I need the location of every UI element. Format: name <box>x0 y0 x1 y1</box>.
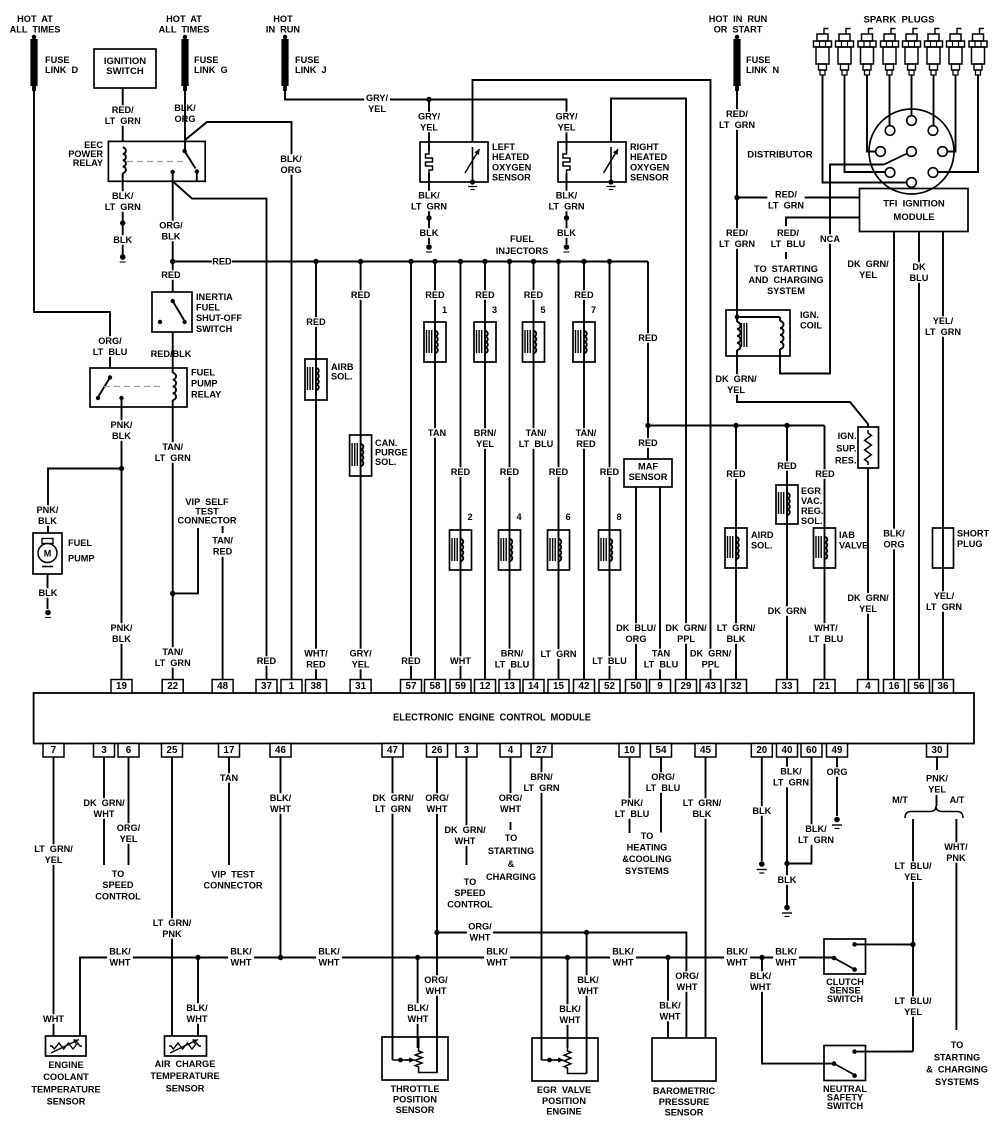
barometric pressure sensor box <box>652 1038 716 1081</box>
svg-text:30: 30 <box>932 745 943 756</box>
svg-text:LT GRN: LT GRN <box>105 202 141 212</box>
svg-text:BLK: BLK <box>752 806 771 816</box>
svg-text:45: 45 <box>700 745 711 756</box>
svg-text:RED: RED <box>726 469 746 479</box>
svg-text:FUEL: FUEL <box>510 234 534 244</box>
wire IAB valve column to ECM pin 21 <box>824 426 826 680</box>
svg-text:SENSOR: SENSOR <box>629 472 668 482</box>
fusible link J <box>283 35 288 40</box>
wire TAN/LT GRN relay coil to ECM pin 22 <box>172 407 174 680</box>
svg-text:WHT: WHT <box>470 933 491 943</box>
spark plug wire 1 to distributor cap <box>823 75 907 183</box>
bus junction dots <box>313 259 318 264</box>
svg-text:22: 22 <box>167 681 178 692</box>
svg-text:SENSOR: SENSOR <box>47 1097 86 1107</box>
svg-text:57: 57 <box>406 681 417 692</box>
svg-text:LT GRN: LT GRN <box>768 201 804 211</box>
svg-text:FUEL: FUEL <box>196 303 220 313</box>
svg-text:BLK: BLK <box>162 232 181 242</box>
ECM pin 22 (top) <box>162 680 183 694</box>
svg-text:BLK: BLK <box>693 809 712 819</box>
svg-text:47: 47 <box>387 745 398 756</box>
svg-text:PNK/: PNK/ <box>37 505 59 515</box>
wire clutch switch to M/T line <box>855 943 913 945</box>
svg-text:6: 6 <box>566 512 571 522</box>
wire ECM pin 45 to barometric sensor <box>705 757 707 1038</box>
spark plug 2 <box>846 29 851 35</box>
svg-text:ORG/: ORG/ <box>499 793 523 803</box>
ECM pin 14 (top) <box>523 680 544 694</box>
svg-text:IGN.: IGN. <box>800 310 819 320</box>
wire branch BLK/ORG to ECM pin 1 <box>185 122 292 680</box>
wire DK GRN/YEL resistor to ECM pin 4 <box>867 468 869 680</box>
svg-text:4: 4 <box>517 512 523 522</box>
svg-text:WHT: WHT <box>426 986 447 996</box>
ECM pin 47 (bottom) <box>382 744 403 758</box>
spark plug wire 6 to distributor cap <box>933 75 935 126</box>
wire label TAN/RED <box>210 536 236 557</box>
wire fuse link D to fuel pump relay (ORG/LT BLU) <box>34 91 110 368</box>
svg-text:STARTING: STARTING <box>488 846 534 856</box>
svg-text:BRN/: BRN/ <box>501 649 524 659</box>
wire RED/LT BLU TFI to starting system <box>786 218 860 227</box>
inertia fuel shut-off switch box <box>152 292 192 332</box>
svg-text:DK GRN/: DK GRN/ <box>444 825 486 835</box>
wire label BLK/ORG <box>172 103 198 124</box>
svg-text:LT BLU: LT BLU <box>93 347 128 357</box>
ECM pin 43 (top) <box>700 680 721 694</box>
svg-text:PNK/: PNK/ <box>111 623 133 633</box>
wire TFI to ECM pin 16 <box>893 232 895 680</box>
wire rotor to ignition coil secondary (NCA) <box>780 165 884 374</box>
svg-text:WHT: WHT <box>455 836 476 846</box>
svg-text:TO: TO <box>505 833 518 843</box>
svg-text:LT GRN: LT GRN <box>926 602 962 612</box>
TPS wiper <box>393 1059 413 1061</box>
wire BLK/WHT to TPS <box>417 958 419 1049</box>
IAB valve <box>814 528 836 568</box>
svg-text:ORG/: ORG/ <box>159 221 183 231</box>
canister purge solenoid <box>350 435 372 476</box>
svg-text:BLK/: BLK/ <box>318 947 340 957</box>
wire VPWR diagonal to ECM pin 37 <box>173 181 267 679</box>
ECM pin 21 (top) <box>814 680 835 694</box>
svg-text:ORG/: ORG/ <box>675 971 699 981</box>
stub to brace <box>936 795 938 806</box>
fusible link D <box>32 35 37 40</box>
wire BLK/WHT bus to neutral safety switch <box>762 958 834 1064</box>
ECM pin 15 (top) <box>548 680 569 694</box>
svg-text:49: 49 <box>832 745 843 756</box>
spark plug 8 <box>980 29 985 35</box>
wire ECM pin 26 ORG/WHT reference <box>436 757 438 1073</box>
svg-text:LT GRN: LT GRN <box>540 649 576 659</box>
svg-text:7: 7 <box>51 745 57 756</box>
wire ECM pin 30 PNK/YEL <box>936 757 938 770</box>
wire fuel pump ground BLK <box>47 574 49 609</box>
bus junction dots <box>195 955 200 960</box>
fusible link N <box>735 35 740 40</box>
svg-text:PNK: PNK <box>162 929 182 939</box>
ECM pin 26 (bottom) <box>427 744 448 758</box>
svg-text:PNK/: PNK/ <box>111 420 133 430</box>
svg-text:DK GRN/: DK GRN/ <box>665 623 707 633</box>
ignition suppression resistor <box>858 427 879 468</box>
svg-text:RED: RED <box>257 656 277 666</box>
svg-text:PUMP: PUMP <box>68 554 95 564</box>
svg-text:BAROMETRIC: BAROMETRIC <box>653 1086 716 1096</box>
svg-text:LINK G: LINK G <box>194 65 228 75</box>
wire label ORG/WHT (barometric) <box>674 971 700 992</box>
svg-text:36: 36 <box>938 681 949 692</box>
clutch sense switch box <box>824 939 866 974</box>
svg-text:WHT: WHT <box>500 804 521 814</box>
svg-text:BLK/: BLK/ <box>486 947 508 957</box>
svg-text:SWITCH: SWITCH <box>827 994 864 1004</box>
svg-text:SENSOR: SENSOR <box>166 1083 205 1093</box>
svg-text:14: 14 <box>528 681 539 692</box>
ECM pin 59 (top) <box>450 680 471 694</box>
svg-text:17: 17 <box>224 745 235 756</box>
svg-text:BLK/: BLK/ <box>559 1004 581 1014</box>
ECM pin 48 (top) <box>212 680 233 694</box>
svg-text:9: 9 <box>657 681 663 692</box>
wire inertia to fuel pump relay coil <box>172 332 174 373</box>
fuel injector 5 <box>523 322 545 362</box>
svg-text:GRY/: GRY/ <box>555 112 578 122</box>
svg-text:DK GRN/: DK GRN/ <box>847 593 889 603</box>
bus label BLK/WHT <box>724 947 750 968</box>
svg-text:SOL.: SOL. <box>801 516 822 526</box>
wire AIRD solenoid column to ECM pin 32 <box>735 426 737 680</box>
svg-text:DK: DK <box>912 262 926 272</box>
wire label RED/BLK <box>150 349 193 359</box>
wire label YEL/LT GRN (pin 36) <box>925 591 962 612</box>
fuel injector 6 <box>548 530 570 570</box>
svg-text:BLK: BLK <box>778 875 797 885</box>
junction RED/LT GRN to TFI <box>734 195 739 200</box>
svg-text:A/T: A/T <box>950 795 965 805</box>
svg-text:ELECTRONIC ENGINE CONTROL M: ELECTRONIC ENGINE CONTROL MODULE <box>393 713 591 724</box>
svg-text:WHT: WHT <box>110 958 131 968</box>
svg-text:LEFT: LEFT <box>492 142 515 152</box>
wire label DK GRN (pin 33) <box>768 606 805 616</box>
ECM pin 29 (top) <box>676 680 697 694</box>
svg-text:PNK/: PNK/ <box>621 798 643 808</box>
svg-text:IGN.: IGN. <box>838 431 857 441</box>
svg-text:LINK D: LINK D <box>45 65 78 75</box>
injector 3 column to ECM pin 12 <box>484 262 486 680</box>
svg-text:BLK/: BLK/ <box>280 154 302 164</box>
svg-text:SYSTEM: SYSTEM <box>767 286 805 296</box>
svg-text:SYSTEMS: SYSTEMS <box>935 1077 979 1087</box>
wire ECM pin 3 to speed control (right) <box>466 757 468 865</box>
ECM pin 7 (bottom) <box>43 744 64 758</box>
spark plug 6 <box>935 29 940 35</box>
svg-text:SOL.: SOL. <box>331 372 352 382</box>
wire reference drop to EGR sensor <box>586 933 588 1074</box>
EEC relay common contact <box>171 170 175 174</box>
svg-text:SPEED: SPEED <box>102 880 134 890</box>
svg-text:HOT AT: HOT AT <box>166 14 202 24</box>
svg-text:BLK/: BLK/ <box>270 793 292 803</box>
svg-text:POSITION: POSITION <box>542 1096 586 1106</box>
svg-text:LT GRN: LT GRN <box>719 239 755 249</box>
svg-text:RED/: RED/ <box>726 228 748 238</box>
svg-text:WHT: WHT <box>427 804 448 814</box>
wire label LT GRN (pin 15) <box>540 649 577 659</box>
svg-text:LT BLU: LT BLU <box>771 239 806 249</box>
wire label WHT/RED (pin 38) <box>303 649 329 670</box>
wire label TAN <box>427 428 447 438</box>
svg-text:WHT/: WHT/ <box>304 649 328 659</box>
svg-text:5: 5 <box>541 305 546 315</box>
svg-text:LT GRN/: LT GRN/ <box>153 918 192 928</box>
left O2 sensing element <box>472 147 474 182</box>
svg-text:3: 3 <box>464 745 470 756</box>
junction EGR VAC feed <box>784 423 789 428</box>
svg-text:M: M <box>44 549 52 559</box>
svg-text:LINK N: LINK N <box>746 65 779 75</box>
svg-text:1: 1 <box>289 681 295 692</box>
svg-text:PPL: PPL <box>702 660 720 670</box>
neutral safety switch box <box>824 1046 866 1081</box>
wire label BLK/ORG (pin 1 branch) <box>278 154 304 175</box>
wire ECM pin 46 to ground bus BLK/WHT <box>280 757 282 958</box>
svg-text:TO: TO <box>951 1040 964 1050</box>
svg-text:SUP.: SUP. <box>836 443 856 453</box>
svg-text:BLK/: BLK/ <box>780 767 802 777</box>
wire label WHT/LT BLU (pin 21) <box>807 623 844 644</box>
svg-text:OR START: OR START <box>714 25 763 35</box>
svg-text:CONNECTOR: CONNECTOR <box>203 881 262 891</box>
svg-text:6: 6 <box>126 745 132 756</box>
svg-text:RED: RED <box>306 317 326 327</box>
svg-text:DK GRN/: DK GRN/ <box>690 649 732 659</box>
svg-text:NCA: NCA <box>820 234 840 244</box>
svg-text:BLK: BLK <box>420 228 439 238</box>
wire TFI to ECM pin 36 <box>942 232 944 680</box>
ignition coil primary winding <box>735 315 740 320</box>
wire label DK GRN/PPL (pin 43) <box>689 649 732 670</box>
svg-text:29: 29 <box>681 681 692 692</box>
svg-text:THROTTLE: THROTTLE <box>391 1084 440 1094</box>
svg-text:WHT: WHT <box>43 1014 64 1024</box>
wire label GRY/YEL (left) <box>416 112 442 133</box>
EEC relay dashed link <box>127 161 183 163</box>
svg-text:LT BLU: LT BLU <box>615 809 650 819</box>
svg-text:DK GRN/: DK GRN/ <box>847 259 889 269</box>
svg-text:REG.: REG. <box>801 506 823 516</box>
svg-text:TAN/: TAN/ <box>212 536 233 546</box>
VIP connector stub dash <box>222 526 224 533</box>
svg-text:SOL.: SOL. <box>375 457 396 467</box>
svg-text:4: 4 <box>865 681 871 692</box>
svg-text:2: 2 <box>468 512 473 522</box>
svg-text:SENSOR: SENSOR <box>630 173 669 183</box>
junction ORG/BLK - injector feed bus <box>170 259 175 264</box>
svg-text:INERTIA: INERTIA <box>196 292 233 302</box>
svg-text:EGR VALVE: EGR VALVE <box>537 1085 591 1095</box>
ECM pin 56 (top) <box>909 680 930 694</box>
svg-text:CONTROL: CONTROL <box>447 899 493 909</box>
svg-text:4: 4 <box>508 745 514 756</box>
svg-text:33: 33 <box>782 681 793 692</box>
fuel pump relay coil <box>173 373 176 400</box>
svg-text:& CHARGING: & CHARGING <box>926 1065 988 1075</box>
ECM pin 25 (bottom) <box>162 744 183 758</box>
svg-text:ALL TIMES: ALL TIMES <box>159 25 210 35</box>
svg-text:TAN/: TAN/ <box>162 647 183 657</box>
wire RED/LT GRN fuse N to ignition coil <box>736 91 738 317</box>
svg-text:AIRB: AIRB <box>331 362 354 372</box>
svg-text:WHT: WHT <box>776 958 797 968</box>
wire ECM pin 17 to VIP test connector <box>228 757 230 865</box>
svg-text:RED: RED <box>777 461 797 471</box>
svg-text:RED: RED <box>451 467 471 477</box>
junction PNK/BLK <box>119 466 124 471</box>
svg-text:TAN: TAN <box>428 428 447 438</box>
bus label BLK/WHT <box>610 947 636 968</box>
injector 4 column to ECM pin 13 <box>509 262 511 680</box>
svg-text:BLK: BLK <box>112 431 131 441</box>
fuel pump relay contact <box>108 375 112 379</box>
svg-text:HOT AT: HOT AT <box>17 14 53 24</box>
right O2 ground chain BLK/LT GRN - BLK <box>566 182 568 244</box>
wire label WHT (pin 59) <box>450 656 470 666</box>
svg-text:PNK: PNK <box>946 853 966 863</box>
AIRD solenoid <box>725 528 747 568</box>
ECM pin 40 (bottom) <box>777 744 798 758</box>
junction EGR reference drop <box>584 930 589 935</box>
junction AIRD feed <box>733 423 738 428</box>
svg-text:WHT: WHT <box>613 958 634 968</box>
left O2 ground chain BLK/LT GRN - BLK <box>428 182 430 244</box>
svg-text:BLK/: BLK/ <box>883 529 905 539</box>
wire label NCA <box>820 234 840 244</box>
ECM pin 32 (top) <box>726 680 747 694</box>
svg-text:FUEL: FUEL <box>191 368 215 378</box>
svg-text:VIP TEST: VIP TEST <box>211 870 255 880</box>
TFI ignition module box <box>860 189 969 232</box>
svg-text:ORG/: ORG/ <box>425 793 449 803</box>
svg-text:BLK/: BLK/ <box>407 1003 429 1013</box>
wire TAN/RED to ECM pin 48 <box>222 557 224 680</box>
right O2 heater element <box>563 151 570 173</box>
spark plug 3 <box>869 29 874 35</box>
svg-text:ORG: ORG <box>281 165 302 175</box>
svg-text:PRESSURE: PRESSURE <box>659 1097 710 1107</box>
svg-text:GRY/: GRY/ <box>418 112 441 122</box>
ECM pin 36 (top) <box>933 680 954 694</box>
svg-text:58: 58 <box>430 681 441 692</box>
svg-text:WHT: WHT <box>727 958 748 968</box>
wire ECM pin 27 to EGR position sensor <box>541 757 543 1060</box>
svg-text:YEL: YEL <box>476 439 494 449</box>
svg-text:WHT: WHT <box>560 1015 581 1025</box>
wire PNK/BLK relay to ECM pin 19 <box>121 398 123 680</box>
wire label DK GRN/YEL (TFI) <box>847 259 890 280</box>
svg-text:CHARGING: CHARGING <box>486 872 536 882</box>
svg-text:LT BLU/: LT BLU/ <box>894 996 931 1006</box>
svg-text:ENGINE: ENGINE <box>546 1107 581 1117</box>
EEC relay coil <box>123 148 126 174</box>
svg-text:RIGHT: RIGHT <box>630 142 659 152</box>
svg-text:WHT: WHT <box>487 958 508 968</box>
svg-text:PUMP: PUMP <box>191 379 218 389</box>
wire ORG/BLK relay output <box>172 172 174 292</box>
left heated oxygen sensor box <box>420 142 488 182</box>
svg-text:WHT: WHT <box>660 1012 681 1022</box>
svg-text:&: & <box>508 859 515 869</box>
svg-text:LT BLU: LT BLU <box>644 660 679 670</box>
wire TFI to ECM pin 56 <box>918 232 920 680</box>
svg-text:TAN/: TAN/ <box>526 428 547 438</box>
bus label BLK/WHT <box>484 947 510 968</box>
svg-text:SOL.: SOL. <box>751 541 772 551</box>
svg-text:DK BLU/: DK BLU/ <box>616 623 656 633</box>
svg-text:GRY/: GRY/ <box>366 93 389 103</box>
svg-text:42: 42 <box>579 681 590 692</box>
svg-text:LT GRN: LT GRN <box>719 120 755 130</box>
ECM pin 45 (bottom) <box>695 744 716 758</box>
svg-text:BLU: BLU <box>910 273 929 283</box>
svg-text:BLK/: BLK/ <box>186 1003 208 1013</box>
fuel pump relay dashed link <box>104 386 164 388</box>
svg-text:BLK: BLK <box>112 634 131 644</box>
bus label BLK/WHT <box>773 947 799 968</box>
wire BLK/WHT to air charge sensor <box>197 958 199 1037</box>
svg-text:RED: RED <box>500 467 520 477</box>
svg-text:1: 1 <box>442 305 447 315</box>
svg-text:HOT IN RUN: HOT IN RUN <box>709 14 768 24</box>
svg-text:YEL: YEL <box>859 270 877 280</box>
svg-text:ORG: ORG <box>827 767 848 777</box>
right O2 case ground <box>608 179 613 184</box>
junction clutch switch <box>910 942 915 947</box>
ECM pin 60 (bottom) <box>801 744 822 758</box>
svg-text:BLK/: BLK/ <box>805 824 827 834</box>
injector 5 column to ECM pin 14 <box>533 262 535 680</box>
EGR sensor resistor <box>564 1048 571 1071</box>
TPS resistor <box>415 1048 422 1070</box>
fuel injector 7 <box>573 322 595 362</box>
EEC relay coil ground chain BLK/LT GRN - BLK <box>122 181 124 255</box>
svg-text:GRY/: GRY/ <box>350 649 373 659</box>
wire BLK/WHT to EGR sensor (bus drop) <box>567 958 569 1049</box>
right O2 sensing element <box>610 147 612 182</box>
svg-text:54: 54 <box>656 745 667 756</box>
svg-text:SWITCH: SWITCH <box>106 66 144 77</box>
ECM pin 3 (bottom) <box>94 744 115 758</box>
svg-text:LT GRN: LT GRN <box>411 202 447 212</box>
svg-text:20: 20 <box>756 745 767 756</box>
wire ECM pin 54 to heating and cooling <box>660 757 662 833</box>
wire label BRN/LT BLU (pin 13) <box>493 649 530 670</box>
wire label GRY/YEL (right) <box>554 112 580 133</box>
svg-text:LT GRN: LT GRN <box>155 658 191 668</box>
ECM pin 10 (bottom) <box>619 744 640 758</box>
wire EGR vacuum regulator column to ECM pin 33 <box>786 426 788 680</box>
wire ECM pin 47 to throttle position sensor <box>392 757 394 1060</box>
fuel pump relay box <box>90 368 187 407</box>
svg-text:BLK/: BLK/ <box>109 947 131 957</box>
svg-text:YEL: YEL <box>859 604 877 614</box>
svg-text:16: 16 <box>889 681 900 692</box>
wire label GRY/YEL (pin 31) <box>348 649 374 670</box>
svg-text:TO: TO <box>112 869 125 879</box>
svg-text:DK GRN/: DK GRN/ <box>372 793 414 803</box>
